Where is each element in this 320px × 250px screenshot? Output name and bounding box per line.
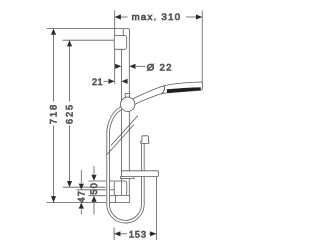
dimension 47	[76, 170, 114, 215]
svg-text:47: 47	[76, 190, 86, 203]
dimension 21	[92, 77, 128, 87]
dimension 718	[47, 29, 124, 203]
top wall plate	[114, 36, 127, 50]
rail break marks	[107, 116, 138, 155]
svg-text:153: 153	[129, 229, 147, 239]
dimension 50	[89, 166, 115, 215]
slider knob	[121, 97, 135, 111]
rail tube	[121, 30, 129, 195]
svg-text:50: 50	[89, 182, 99, 195]
hose nut fitting	[141, 136, 149, 144]
svg-text:718: 718	[49, 103, 59, 124]
dimension Ø 22	[115, 62, 173, 73]
svg-text:Ø 22: Ø 22	[147, 62, 173, 73]
dimension max. 310	[115, 11, 203, 85]
bottom end cap	[115, 195, 129, 202]
dimension 153	[114, 177, 156, 240]
svg-text:625: 625	[65, 103, 75, 124]
head-handle joint	[162, 86, 165, 94]
slider knob stub	[125, 94, 129, 98]
hose	[108, 108, 143, 222]
spray face	[167, 87, 201, 93]
hand shower head	[162, 82, 203, 94]
svg-text:21: 21	[92, 77, 103, 87]
dimension 625	[63, 40, 115, 187]
rail top cap	[123, 29, 129, 37]
svg-text:max. 310: max. 310	[132, 12, 182, 23]
soap dish shelf	[121, 171, 159, 179]
bottom wall plate	[114, 181, 127, 195]
hand shower handle	[132, 86, 165, 106]
